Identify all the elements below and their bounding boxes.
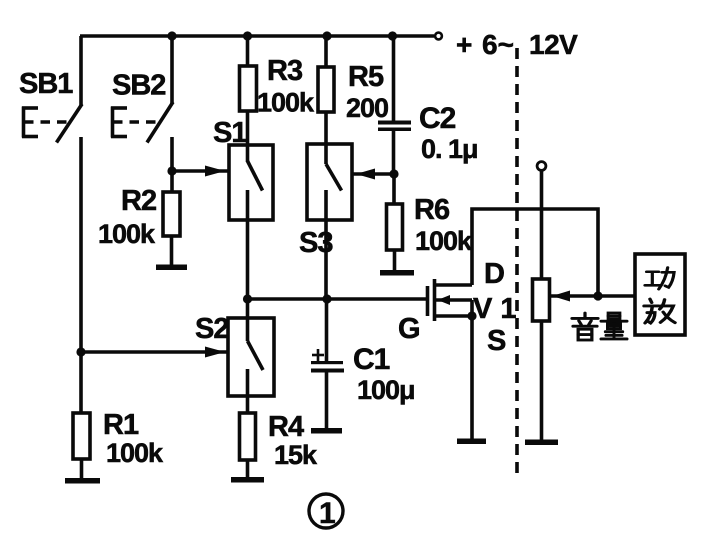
dashed boundary line <box>515 48 519 478</box>
wire source to ground <box>470 316 474 440</box>
label R2 100k <box>98 185 156 249</box>
node junction SB2-R2-S1ctl <box>167 166 176 175</box>
capacitor C1 <box>311 361 344 373</box>
node junction rail-R3 <box>243 31 252 40</box>
resistor R5 <box>318 67 334 112</box>
potentiometer volume <box>533 279 571 321</box>
svg-text:6~: 6~ <box>482 29 514 60</box>
wire C1 to ground <box>325 372 329 429</box>
wire S2 output to R4 <box>246 369 250 413</box>
node junction SB1-R1-S2 <box>76 347 85 356</box>
node junction source-substrate <box>467 311 476 320</box>
capacitor C2 <box>378 121 411 132</box>
wire gate node to S2 input contact <box>246 299 250 341</box>
figure number circled 1 <box>309 494 343 530</box>
wire S2 control with arrow <box>81 347 227 358</box>
analog switch S2 <box>228 318 274 396</box>
wire SB2 bottom lead <box>170 137 174 193</box>
svg-text:100k: 100k <box>257 88 315 118</box>
ground R2 <box>156 265 187 271</box>
ground R6 <box>380 270 414 276</box>
svg-text:15k: 15k <box>274 440 318 470</box>
svg-text:SB1: SB1 <box>19 68 73 100</box>
wire S1 output to gate node <box>246 190 250 299</box>
label S3 <box>299 227 333 259</box>
svg-text:1: 1 <box>319 497 336 530</box>
label C1 100u <box>353 343 415 405</box>
wire rail to R3 <box>246 36 250 66</box>
svg-text:R2: R2 <box>121 185 156 217</box>
label V1 D S <box>473 258 517 357</box>
node junction rail-SB2 <box>167 31 176 40</box>
svg-text:100k: 100k <box>98 219 156 249</box>
resistor R1 <box>73 413 90 459</box>
node junction rail-C2 <box>388 31 397 40</box>
svg-text:R4: R4 <box>268 411 304 443</box>
ground V1 source <box>457 439 486 445</box>
resistor R4 <box>240 413 256 460</box>
svg-text:V 1: V 1 <box>473 293 517 325</box>
wire S3 output to gate node <box>324 190 328 299</box>
amplifier box <box>635 254 685 335</box>
svg-text:C1: C1 <box>353 343 390 376</box>
label volume yin char <box>572 313 598 340</box>
wire drain up and over to pot wiper <box>472 209 598 296</box>
ground R4 <box>231 477 264 483</box>
label SB2 <box>112 70 165 102</box>
wire rail to C2 <box>392 36 396 121</box>
svg-text:D: D <box>484 258 505 290</box>
terminal volume input open circle <box>537 162 546 171</box>
svg-text:S2: S2 <box>195 313 228 345</box>
svg-text:100k: 100k <box>106 438 164 468</box>
wire wiper to amplifier <box>550 294 635 298</box>
svg-text:S1: S1 <box>213 117 247 149</box>
mosfet V1 <box>428 279 473 321</box>
wire pot to ground <box>540 321 544 441</box>
analog switch S1 <box>229 145 273 220</box>
svg-text:100μ: 100μ <box>357 375 415 405</box>
wire node to R6 <box>392 174 396 204</box>
label SB1 <box>19 68 73 100</box>
svg-text:+: + <box>456 29 472 60</box>
wire terminal to potentiometer <box>540 170 544 279</box>
capacitor C1 polarity plus <box>312 349 324 361</box>
label S1 <box>213 117 247 149</box>
wire rail to R5 <box>324 36 328 67</box>
ground R1 <box>65 478 100 484</box>
label R5 200 <box>346 61 388 123</box>
svg-text:0. 1μ: 0. 1μ <box>421 134 478 164</box>
svg-text:R1: R1 <box>103 409 139 441</box>
pushbutton SB2 <box>111 102 173 143</box>
wire S1 control with arrow <box>172 166 228 177</box>
node junction S3-C1-gate <box>322 294 331 303</box>
svg-text:C2: C2 <box>419 102 456 135</box>
label amplifier gong char <box>645 268 674 290</box>
wire R5 to S3 input contact <box>324 112 328 164</box>
node junction C2-R6-S3ctl <box>389 169 398 178</box>
label R1 100k <box>103 409 164 468</box>
label supply +6~12V <box>456 29 578 60</box>
wire node to R1 <box>79 352 83 413</box>
ground potentiometer <box>525 440 558 446</box>
svg-text:G: G <box>398 313 421 345</box>
node junction rail-R5 <box>322 31 331 40</box>
wire R1 to ground <box>80 459 84 479</box>
label R6 100k <box>414 194 473 256</box>
wire gate node to C1 <box>325 299 329 361</box>
wire top supply rail <box>80 34 434 38</box>
label R4 15k <box>268 411 318 470</box>
wire R3 to S1 input contact <box>246 111 250 162</box>
svg-text:SB2: SB2 <box>112 70 165 102</box>
wire SB1 top lead <box>79 36 83 106</box>
resistor R3 <box>240 66 257 111</box>
label volume liang char <box>601 313 627 339</box>
pushbutton SB1 <box>22 104 82 143</box>
svg-text:100k: 100k <box>415 226 473 256</box>
terminal supply open circle <box>435 33 442 40</box>
ground C1 <box>311 428 342 434</box>
svg-text:S: S <box>487 325 506 357</box>
analog switch S3 <box>307 144 352 220</box>
label amplifier fang char <box>644 299 675 323</box>
wire gate node horizontal <box>248 297 428 301</box>
label G <box>398 313 421 345</box>
node junction S1-S2-gate <box>243 294 252 303</box>
label C2 0.1u <box>419 102 478 164</box>
label R3 100k <box>257 55 315 118</box>
node junction drain-wiper <box>593 291 602 300</box>
label S2 <box>195 313 228 345</box>
resistor R2 <box>163 192 180 236</box>
svg-text:S3: S3 <box>299 227 333 259</box>
svg-text:200: 200 <box>346 93 388 123</box>
svg-text:R6: R6 <box>414 194 450 226</box>
wire S3 control with arrow <box>352 169 395 180</box>
wire SB1 bottom lead <box>79 137 83 352</box>
wire R6 to ground <box>393 250 397 271</box>
svg-text:R5: R5 <box>348 61 384 93</box>
svg-text:12V: 12V <box>529 29 578 60</box>
resistor R6 <box>387 204 403 250</box>
svg-text:R3: R3 <box>267 55 303 87</box>
wire R2 to ground <box>170 236 174 266</box>
wire C2 to R6 node <box>392 131 396 175</box>
wire SB2 top lead <box>170 36 174 104</box>
wire R4 to ground <box>246 460 250 479</box>
